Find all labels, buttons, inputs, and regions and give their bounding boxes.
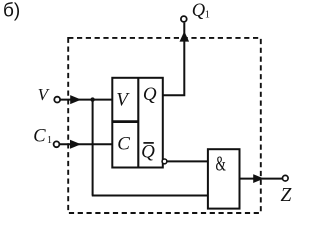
dashed enclosure — [68, 38, 261, 213]
flip-flop U1 body — [112, 78, 163, 168]
arrow on Q1 wire pointing up — [180, 31, 190, 41]
pin label Q — [143, 84, 157, 105]
input label V — [38, 85, 51, 104]
flip-flop V/C cell divider — [112, 120, 139, 123]
inversion bubble on Q-bar output — [162, 159, 167, 164]
AND gate U2 body — [208, 149, 240, 208]
arrow on C1 wire — [70, 140, 81, 149]
wire branch horizontal to AND input — [92, 194, 209, 196]
arrow on V wire — [70, 95, 81, 104]
svg-text:1: 1 — [47, 135, 52, 146]
svg-text:б): б) — [3, 1, 20, 22]
terminal circle C1 — [54, 141, 60, 147]
pin label C — [117, 134, 130, 155]
gate symbol & — [216, 151, 226, 175]
wire branch vertical from V junction down — [92, 100, 94, 196]
terminal circle Q1 — [181, 16, 187, 22]
wire C1 input horizontal — [60, 143, 113, 145]
terminal circle V — [54, 97, 60, 103]
wire Q output to top — [163, 23, 184, 96]
pin label Q-bar — [141, 141, 155, 162]
arrow on Z wire — [253, 174, 264, 183]
flip-flop inner vertical divider — [137, 78, 139, 168]
terminal circle Z — [283, 175, 289, 181]
svg-text:V: V — [116, 90, 130, 111]
label б) — [3, 1, 20, 22]
wire V input horizontal — [61, 99, 113, 101]
svg-text:V: V — [38, 85, 51, 104]
svg-text:&: & — [216, 151, 226, 175]
svg-text:C: C — [33, 127, 46, 147]
output label Z — [280, 185, 291, 206]
svg-text:Q: Q — [141, 141, 155, 162]
output label Q1 — [192, 1, 210, 21]
svg-text:Z: Z — [280, 185, 291, 206]
svg-text:C: C — [117, 134, 130, 155]
junction node on V wire — [90, 97, 94, 101]
input label C1 — [33, 127, 52, 147]
wire Q-bar to AND input — [167, 160, 208, 162]
svg-text:Q: Q — [192, 1, 206, 21]
wire AND output to Z — [240, 178, 283, 180]
svg-text:1: 1 — [205, 10, 210, 21]
pin label V — [116, 90, 130, 111]
svg-text:Q: Q — [143, 84, 157, 105]
